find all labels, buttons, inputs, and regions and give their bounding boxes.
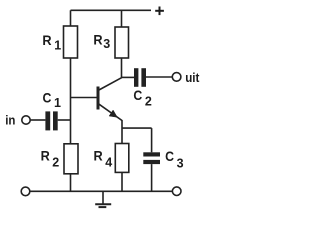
svg-text:1: 1 (54, 96, 61, 110)
terminal uit circle (172, 73, 181, 82)
svg-text:3: 3 (103, 37, 110, 51)
wire R1 top drop (70, 10, 72, 26)
wire R2 bottom drop (70, 174, 72, 192)
resistor R3 (115, 27, 129, 58)
wire top rail (71, 9, 152, 11)
wire emitter vertical to R4 (121, 120, 123, 144)
capacitor C2 plates (134, 68, 146, 87)
wire C3 bottom drop (151, 164, 153, 191)
transistor Q1 base bar (97, 87, 100, 110)
wire C2 to uit terminal (146, 76, 172, 78)
svg-text:2: 2 (145, 95, 152, 109)
svg-text:C: C (165, 148, 174, 164)
svg-text:in: in (5, 112, 15, 127)
svg-text:uit: uit (185, 70, 200, 85)
wire bottom rail (30, 190, 173, 192)
wire R1 to R2 vertical (70, 58, 72, 144)
svg-text:C: C (43, 90, 52, 106)
wire base (71, 97, 97, 99)
svg-text:C: C (133, 87, 142, 103)
ground symbol (95, 191, 111, 207)
svg-text:R: R (93, 32, 102, 48)
wire R3 top drop (121, 10, 123, 27)
svg-text:3: 3 (177, 156, 184, 170)
wire C3 top drop (151, 128, 153, 152)
wire in terminal to C1 (30, 119, 45, 121)
wire R4 bottom drop (121, 172, 123, 191)
resistor R1 (64, 26, 78, 58)
wire C1 to base junction (58, 119, 71, 121)
terminal bottom-left circle (21, 187, 30, 196)
capacitor C1 plates (45, 111, 57, 130)
svg-text:R: R (42, 32, 51, 48)
wire collector junction to C2 (122, 76, 135, 78)
svg-text:R: R (41, 148, 50, 164)
svg-text:1: 1 (54, 38, 61, 52)
svg-text:2: 2 (52, 155, 59, 169)
resistor R2 (64, 144, 78, 174)
transistor Q1 emitter line (99, 104, 123, 121)
capacitor C3 plates (143, 152, 160, 164)
svg-text:4: 4 (105, 155, 112, 169)
terminal in circle (22, 116, 30, 124)
resistor R4 (115, 144, 129, 173)
wire emitter junction to C3 (122, 127, 152, 129)
transistor Q1 emitter arrowhead (109, 110, 117, 117)
svg-text:R: R (94, 148, 103, 164)
transistor Q1 collector line (98, 78, 122, 91)
wire R3 to collector junction (121, 58, 123, 77)
terminal bottom-right circle (172, 187, 181, 196)
label plus supply (155, 7, 164, 16)
